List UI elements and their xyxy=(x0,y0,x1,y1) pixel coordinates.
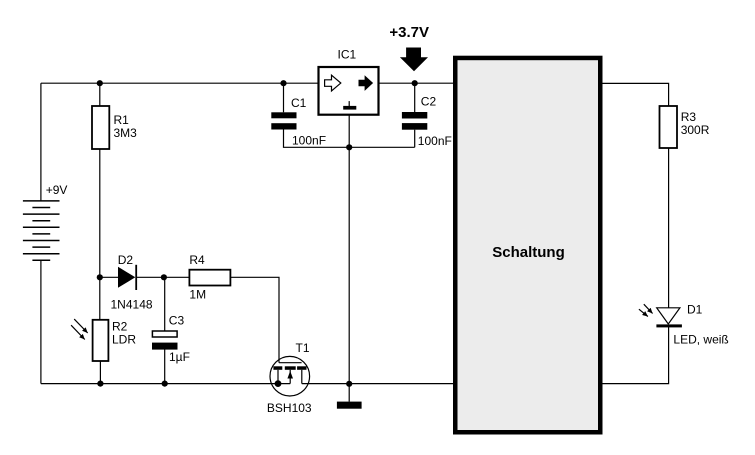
LED light arrows xyxy=(639,304,653,316)
wire R2 bottom xyxy=(99,361,101,384)
svg-text:1M: 1M xyxy=(189,288,206,302)
wire top rail left xyxy=(41,82,319,84)
wire Schaltung right to R3 xyxy=(601,83,669,106)
svg-text:+3.7V: +3.7V xyxy=(389,24,429,41)
svg-text:T1: T1 xyxy=(296,341,310,355)
svg-text:LED, weiß: LED, weiß xyxy=(673,332,728,346)
node D2 cathode R4 C3 xyxy=(161,274,167,280)
node D2 anode xyxy=(97,274,103,280)
wire R1 to node D2 xyxy=(99,149,101,320)
diode D2 xyxy=(118,265,136,290)
node R2 bottom xyxy=(97,381,103,387)
wire C1 top xyxy=(283,83,285,112)
wire battery top xyxy=(40,83,42,201)
wire C1 bottom xyxy=(284,130,415,148)
svg-text:Schaltung: Schaltung xyxy=(492,244,565,261)
capacitor C3 (polarized) xyxy=(152,331,178,350)
LED D1 xyxy=(656,308,682,328)
capacitor C1 xyxy=(271,112,296,129)
svg-text:R1: R1 xyxy=(114,113,130,127)
LDR light arrows xyxy=(71,319,88,339)
+3.7V supply arrow xyxy=(400,48,428,72)
wire R1 branch top xyxy=(99,83,101,106)
node top C1 xyxy=(280,80,286,86)
node C1 C2 ground xyxy=(346,144,352,150)
svg-text:R3: R3 xyxy=(681,110,697,124)
svg-text:R4: R4 xyxy=(189,253,205,267)
wire bottom rail left of T1 xyxy=(41,383,290,385)
svg-text:LDR: LDR xyxy=(112,333,136,347)
svg-text:+9V: +9V xyxy=(46,183,68,197)
svg-text:C3: C3 xyxy=(169,314,185,328)
svg-text:D2: D2 xyxy=(118,253,134,267)
svg-text:300R: 300R xyxy=(681,123,710,137)
svg-text:100nF: 100nF xyxy=(418,134,452,148)
svg-text:R2: R2 xyxy=(112,320,128,334)
resistor R4 xyxy=(189,270,230,286)
svg-text:C1: C1 xyxy=(291,96,307,110)
resistor R2 LDR xyxy=(93,320,109,361)
wire D2 cathode to node xyxy=(136,276,189,278)
node T1 source xyxy=(275,380,282,387)
battery BT +9V xyxy=(23,201,60,260)
svg-text:D1: D1 xyxy=(687,303,703,317)
ground xyxy=(337,402,362,409)
svg-text:1N4148: 1N4148 xyxy=(111,298,153,312)
wire bottom rail right of T1 xyxy=(302,383,454,385)
op-amp IC1 (voltage regulator) xyxy=(319,67,379,115)
wire IC1 output to Schaltung xyxy=(379,82,455,84)
wire battery bottom xyxy=(40,260,42,383)
transistor T1 xyxy=(270,356,310,396)
svg-text:3M3: 3M3 xyxy=(114,126,138,140)
wire C2 top xyxy=(414,83,416,112)
Schaltung block xyxy=(455,58,600,432)
node top R1 xyxy=(97,80,103,86)
wire D1 cathode to Schaltung bottom xyxy=(601,327,669,384)
svg-text:C2: C2 xyxy=(421,94,437,108)
wire ground stub xyxy=(348,384,350,402)
wire IC1 ground pin xyxy=(348,115,350,384)
svg-text:BSH103: BSH103 xyxy=(267,401,312,415)
resistor R1 xyxy=(92,106,109,149)
resistor R3 xyxy=(660,106,678,148)
svg-text:100nF: 100nF xyxy=(292,133,326,147)
wire C3 bottom xyxy=(164,350,166,384)
node ground junction xyxy=(346,381,352,387)
svg-text:IC1: IC1 xyxy=(338,48,357,62)
wire R4 to gate xyxy=(230,277,279,362)
wire D2 anode xyxy=(100,276,118,278)
wire C3 top xyxy=(164,277,166,331)
node +3.7V C2 xyxy=(412,80,418,86)
wire R3 to D1 xyxy=(668,148,670,308)
node C3 bottom xyxy=(162,381,168,387)
wire C2 bottom xyxy=(414,130,416,148)
svg-text:1µF: 1µF xyxy=(169,350,190,364)
capacitor C2 xyxy=(402,112,427,130)
